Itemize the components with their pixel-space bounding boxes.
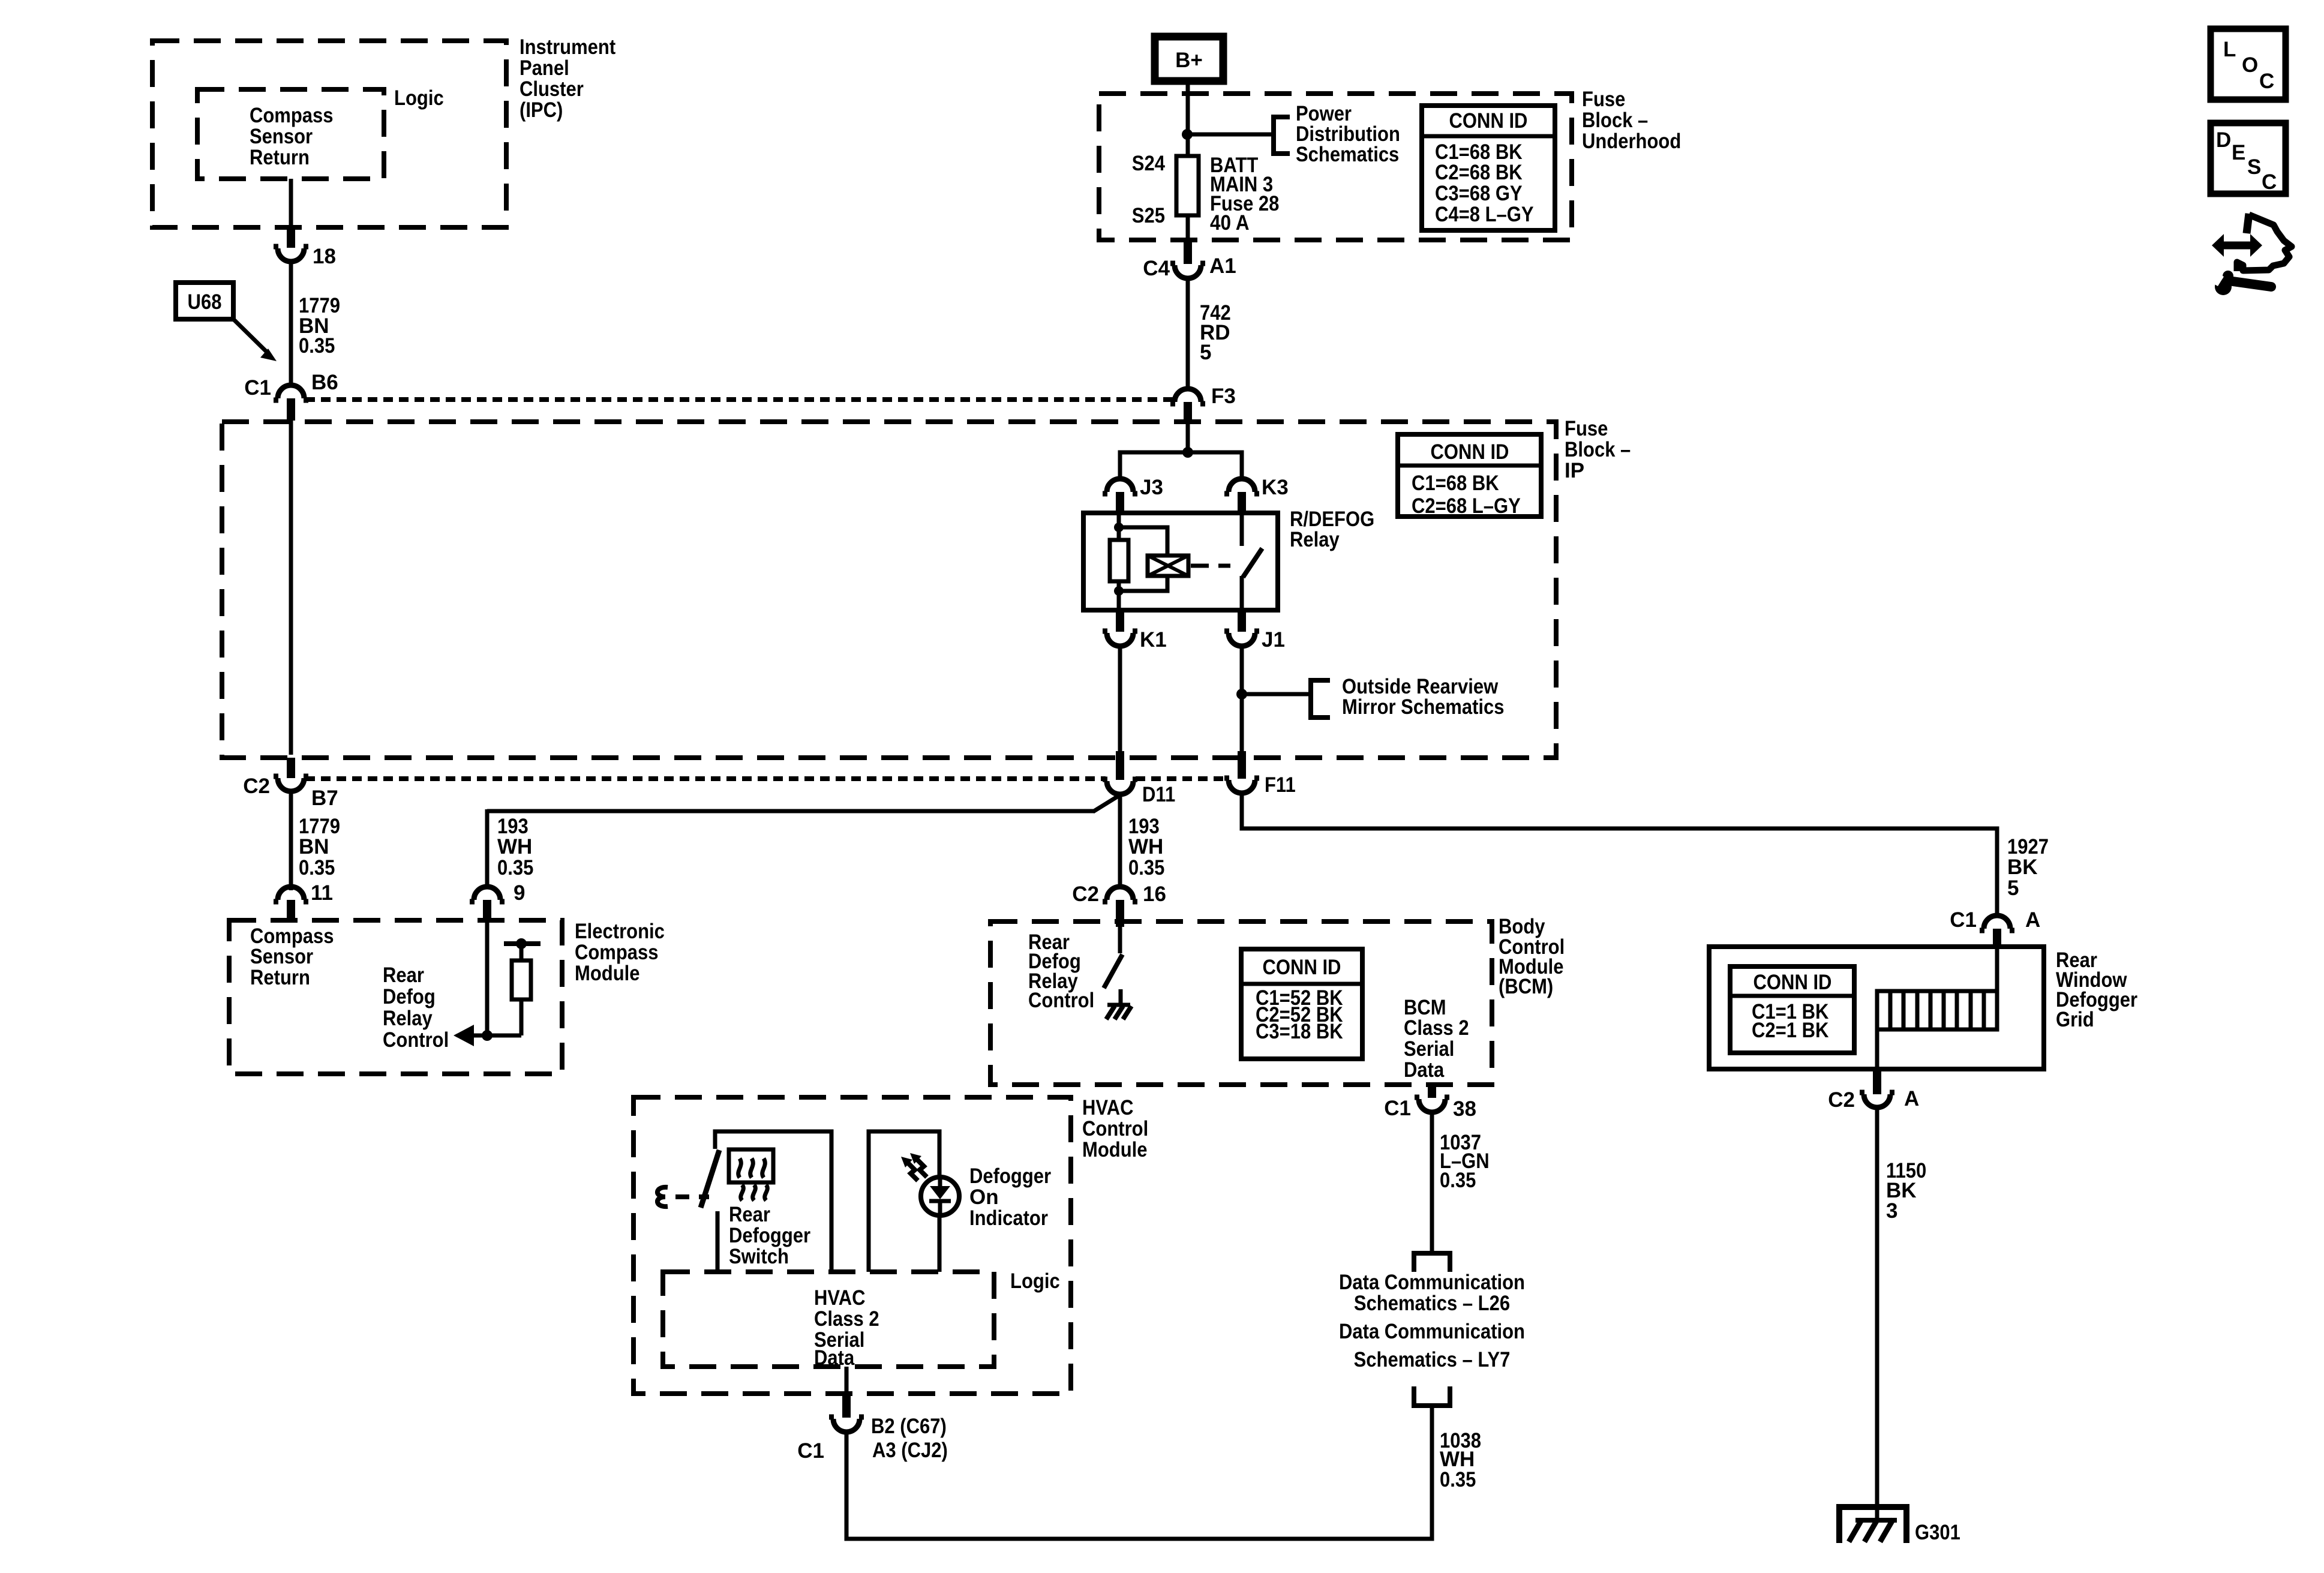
svg-text:0.35: 0.35: [497, 856, 533, 879]
svg-text:40 A: 40 A: [1210, 211, 1250, 235]
svg-text:0.35: 0.35: [1128, 856, 1164, 879]
svg-text:C1=68 BK: C1=68 BK: [1412, 472, 1499, 495]
wire from F3 to relay branch junction: [1186, 424, 1190, 452]
svg-text:S25: S25: [1132, 204, 1165, 227]
svg-text:Compass: Compass: [250, 104, 334, 127]
dotted connector line C2/B7 to D11 to F11: [305, 776, 1106, 781]
junction node in compass module: [482, 1030, 493, 1041]
svg-text:Cluster: Cluster: [520, 77, 584, 101]
svg-text:Switch: Switch: [729, 1245, 789, 1268]
BCM relay driver switch blade: [1104, 954, 1122, 988]
bracket: outside rearview mirror schematics tab: [1311, 680, 1330, 718]
svg-text:38: 38: [1453, 1097, 1476, 1121]
svg-text:C2: C2: [1072, 882, 1099, 906]
svg-text:E: E: [2232, 141, 2245, 164]
module box: Fuse Block - IP: [222, 422, 1556, 758]
svg-text:Control: Control: [1028, 989, 1094, 1012]
svg-text:C2=68 BK: C2=68 BK: [1435, 161, 1523, 184]
svg-text:Control: Control: [1082, 1117, 1148, 1140]
svg-text:C4: C4: [1143, 257, 1170, 280]
svg-text:Data: Data: [1404, 1058, 1445, 1082]
svg-text:C2=1 BK: C2=1 BK: [1752, 1019, 1828, 1042]
wire 1779 BN segment 2 (through fuse block IP): [289, 421, 293, 755]
svg-text:CONN ID: CONN ID: [1431, 440, 1509, 464]
wire 1038 WH: [846, 1406, 1432, 1539]
CONN ID table (defogger grid): [1730, 966, 1854, 1053]
svg-text:11: 11: [311, 881, 333, 905]
off-page bracket to data communication (upper): [1414, 1253, 1450, 1272]
svg-text:A3 (CJ2): A3 (CJ2): [872, 1439, 948, 1462]
svg-text:Return: Return: [250, 146, 310, 169]
svg-text:CONN ID: CONN ID: [1263, 956, 1341, 979]
svg-text:Module: Module: [1082, 1138, 1148, 1161]
relay coil feed wire: [1117, 513, 1121, 540]
svg-text:C1: C1: [1384, 1097, 1411, 1120]
icon body repair arrow-wrench: [2208, 214, 2292, 295]
svg-text:Class 2: Class 2: [814, 1307, 879, 1331]
svg-text:Schematics – L26: Schematics – L26: [1354, 1292, 1510, 1315]
svg-text:9: 9: [514, 881, 525, 905]
svg-text:(IPC): (IPC): [520, 98, 563, 122]
wire K1 to D11: [1118, 646, 1122, 751]
svg-text:C1: C1: [1950, 908, 1977, 932]
svg-text:Class 2: Class 2: [1404, 1016, 1469, 1040]
svg-text:WH: WH: [1128, 835, 1163, 858]
svg-text:HVAC: HVAC: [814, 1286, 866, 1310]
svg-text:Rear: Rear: [729, 1203, 770, 1226]
connector C1 pin A of rear window defogger grid: [1984, 915, 2010, 929]
svg-text:Serial: Serial: [1404, 1037, 1454, 1061]
fuse BATT MAIN 3 Fuse 28 40 A: [1176, 156, 1199, 215]
relay switch blade: [1243, 548, 1262, 577]
svg-text:J3: J3: [1140, 476, 1163, 499]
LED emission arrows: [901, 1153, 927, 1181]
svg-text:18: 18: [313, 245, 336, 268]
power symbol B+: [1155, 37, 1223, 81]
internal pull-up resistor of compass module: [487, 1034, 521, 1038]
svg-text:C4=8 L–GY: C4=8 L–GY: [1435, 203, 1534, 226]
svg-text:16: 16: [1143, 882, 1166, 906]
svg-text:K3: K3: [1262, 476, 1289, 499]
connector C2 pin 16 of BCM: [1107, 887, 1133, 900]
relay suppression resistor: [1110, 540, 1128, 581]
svg-text:Underhood: Underhood: [1582, 130, 1681, 153]
svg-text:Rear: Rear: [383, 963, 424, 987]
component box: Rear Window Defogger Grid: [1709, 947, 2044, 1069]
wire inside compass module from pin 9: [485, 920, 490, 1035]
svg-text:C3=18 BK: C3=18 BK: [1256, 1020, 1343, 1043]
module box: Instrument Panel Cluster (IPC): [152, 41, 506, 227]
svg-text:Sensor: Sensor: [250, 945, 313, 968]
wire 193 WH from pin 9 up to D11: [485, 809, 490, 888]
svg-text:On: On: [969, 1185, 999, 1209]
svg-text:0.35: 0.35: [1440, 1468, 1476, 1491]
arrow from U68 to wire: [233, 319, 266, 352]
svg-text:Module: Module: [575, 962, 640, 985]
svg-text:Schematics – LY7: Schematics – LY7: [1354, 1348, 1511, 1371]
svg-text:O: O: [2242, 53, 2258, 77]
connector J3 of R/DEFOG relay: [1107, 479, 1133, 492]
grid element wiring: [1995, 947, 1999, 991]
connector C1 pin B2 (C67) / A3 (CJ2) of HVAC: [842, 1394, 851, 1418]
junction node to power distribution: [1182, 129, 1193, 140]
svg-text:B+: B+: [1175, 49, 1203, 72]
wire 1779 BN segment 3: [289, 791, 293, 890]
defogger heat icon: [729, 1149, 773, 1200]
dotted connector line C1/B6 to F3: [305, 397, 1173, 402]
circuit label U68: [176, 283, 233, 319]
svg-text:C2: C2: [1828, 1088, 1855, 1112]
icon LOC: [2211, 29, 2286, 100]
wire to power distribution schematics: [1187, 133, 1274, 137]
svg-text:WH: WH: [497, 835, 532, 858]
module box: Electronic Compass Module: [229, 920, 562, 1074]
svg-text:D11: D11: [1142, 783, 1175, 806]
svg-text:Mirror Schematics: Mirror Schematics: [1342, 695, 1505, 719]
svg-text:Logic: Logic: [394, 86, 444, 110]
relay actuator dashed link: [1191, 564, 1230, 568]
icon DESC: [2211, 123, 2286, 194]
junction node coil top: [1114, 523, 1124, 532]
svg-text:Defogger: Defogger: [729, 1224, 810, 1247]
svg-text:Block –: Block –: [1565, 438, 1631, 461]
wire split to J3 and K3: [1120, 452, 1242, 479]
connector K3 of R/DEFOG relay: [1229, 479, 1255, 492]
svg-text:Compass: Compass: [575, 941, 659, 964]
svg-text:Indicator: Indicator: [969, 1206, 1048, 1230]
svg-text:B2 (C67): B2 (C67): [871, 1415, 947, 1438]
svg-text:B6: B6: [311, 371, 338, 394]
connector J1 of R/DEFOG relay: [1238, 610, 1246, 632]
svg-text:Electronic: Electronic: [575, 920, 665, 943]
wire J1 to F11: [1240, 646, 1244, 751]
connector pin 18 of IPC: [287, 227, 295, 248]
svg-text:Defog: Defog: [383, 985, 436, 1008]
svg-text:(BCM): (BCM): [1499, 975, 1553, 998]
module box: HVAC Control Module: [633, 1097, 1071, 1394]
svg-text:S24: S24: [1132, 152, 1166, 175]
connector D11 of fuse block IP: [1116, 751, 1124, 780]
arrow to logic (rear defog relay control): [454, 1025, 474, 1046]
svg-text:C: C: [2259, 70, 2274, 93]
svg-text:Fuse: Fuse: [1582, 88, 1625, 111]
svg-text:Defogger: Defogger: [969, 1164, 1051, 1188]
svg-text:Grid: Grid: [2056, 1008, 2094, 1031]
svg-text:A: A: [2025, 908, 2040, 932]
svg-text:C: C: [2262, 170, 2277, 194]
connector C1 pin 38 of BCM: [1428, 1085, 1436, 1098]
switch dashed actuator link: [675, 1194, 709, 1199]
svg-text:A: A: [1904, 1087, 1919, 1110]
svg-text:Fuse: Fuse: [1565, 417, 1608, 440]
svg-text:D: D: [2216, 128, 2231, 152]
module box: Fuse Block - Underhood: [1099, 94, 1572, 240]
svg-text:G301: G301: [1915, 1521, 1960, 1544]
svg-text:5: 5: [1200, 341, 1211, 364]
wire 742 RD 5: [1186, 278, 1190, 390]
svg-text:3: 3: [1886, 1199, 1897, 1223]
module box: Body Control Module (BCM): [990, 921, 1492, 1085]
connector C2 pin A of rear window defogger grid: [1873, 1069, 1881, 1094]
connector F11 of fuse block IP: [1238, 751, 1246, 779]
svg-text:Sensor: Sensor: [250, 125, 313, 148]
svg-text:Instrument: Instrument: [520, 35, 615, 59]
rear defogger switch lower contact: [716, 1211, 720, 1272]
svg-text:C1: C1: [244, 376, 271, 400]
svg-text:A1: A1: [1209, 254, 1236, 278]
wire from fuse to connector C4/A1: [1186, 215, 1190, 240]
wire to outside rearview mirror schematics: [1242, 692, 1311, 697]
svg-text:Block –: Block –: [1582, 109, 1648, 132]
wire from IPC logic box to pin 18: [289, 179, 293, 227]
defogger on indicator LED wiring: [869, 1131, 939, 1272]
CONN ID table (fuse block IP): [1398, 434, 1541, 518]
svg-text:0.35: 0.35: [299, 334, 335, 358]
svg-text:J1: J1: [1262, 628, 1285, 652]
svg-text:C2: C2: [243, 775, 270, 798]
svg-text:F3: F3: [1211, 385, 1236, 408]
relay coil branch wiring: [1119, 527, 1167, 591]
CONN ID table (fuse block underhood): [1422, 106, 1555, 230]
svg-text:BN: BN: [299, 835, 329, 858]
CONN ID table (BCM): [1241, 949, 1362, 1059]
wire 1037 L-GN: [1430, 1113, 1434, 1251]
svg-text:C3=68 GY: C3=68 GY: [1435, 182, 1523, 205]
svg-text:U68: U68: [188, 290, 222, 314]
connector F3 of fuse block IP: [1175, 389, 1201, 402]
connector C4 pin A1: [1184, 240, 1192, 264]
connector K1 of R/DEFOG relay: [1116, 610, 1124, 632]
rear defogger switch blade: [701, 1150, 719, 1208]
svg-text:Panel: Panel: [520, 56, 569, 80]
relay coil element: [1148, 556, 1188, 576]
off-page bracket from data communication (lower): [1414, 1386, 1450, 1406]
svg-text:0.35: 0.35: [299, 856, 335, 879]
logic box: Compass Sensor Return (IPC): [197, 89, 384, 179]
svg-text:F11: F11: [1265, 773, 1296, 797]
svg-text:L: L: [2223, 38, 2236, 61]
svg-text:C2=68 L–GY: C2=68 L–GY: [1412, 494, 1521, 518]
BCM internal ground: [1106, 989, 1131, 1019]
junction node relay feed split: [1182, 447, 1193, 458]
logic box: HVAC Class 2 Serial Data: [663, 1272, 994, 1367]
svg-text:Logic: Logic: [1010, 1269, 1060, 1293]
svg-text:HVAC: HVAC: [1082, 1096, 1134, 1119]
wire from HVAC logic to connector: [845, 1367, 849, 1394]
svg-text:Data Communication: Data Communication: [1339, 1320, 1525, 1343]
svg-text:B7: B7: [311, 786, 338, 810]
svg-text:Data: Data: [814, 1346, 855, 1370]
wire 1927 BK from F11 to rear window defogger grid: [1242, 793, 1997, 917]
connector C2 pin B7: [287, 758, 295, 778]
svg-text:C1: C1: [797, 1439, 824, 1463]
svg-text:BK: BK: [2007, 855, 2038, 879]
svg-text:Data Communication: Data Communication: [1339, 1271, 1525, 1294]
svg-text:Control: Control: [383, 1028, 449, 1052]
bracket: power distribution schematics tab: [1274, 117, 1290, 154]
svg-text:CONN ID: CONN ID: [1449, 109, 1528, 133]
defogger grid element: [1877, 991, 1997, 1029]
svg-text:Return: Return: [250, 966, 310, 989]
wire 1779 BN segment 1: [289, 262, 293, 386]
wire 193 WH from D11 down to BCM: [1118, 794, 1122, 888]
connector pin 11 of Electronic Compass Module: [278, 887, 304, 900]
junction node coil bottom: [1114, 586, 1124, 596]
junction node to outside rearview mirror: [1236, 689, 1247, 700]
svg-text:Relay: Relay: [1290, 528, 1340, 551]
relay switch contact (fixed): [1240, 515, 1244, 546]
ground G301: [1839, 1507, 1906, 1543]
manual actuator hook: [657, 1187, 668, 1206]
connector C1 pin B6: [278, 385, 304, 398]
connector pin 9 of Electronic Compass Module: [474, 887, 500, 900]
svg-text:0.35: 0.35: [1440, 1169, 1476, 1192]
wire from B+ into fuse block underhood: [1186, 81, 1190, 157]
svg-text:CONN ID: CONN ID: [1753, 971, 1832, 994]
rear defogger switch circuit rail: [715, 1131, 831, 1272]
svg-text:Schematics: Schematics: [1296, 143, 1399, 166]
LED defogger on indicator: [921, 1177, 959, 1215]
svg-text:K1: K1: [1140, 628, 1167, 652]
svg-text:S: S: [2247, 155, 2261, 179]
svg-text:Relay: Relay: [383, 1007, 433, 1030]
svg-text:IP: IP: [1565, 459, 1584, 482]
BCM internal switch wire: [1118, 927, 1122, 953]
wire 1150 BK 3: [1875, 1107, 1879, 1520]
svg-text:5: 5: [2007, 876, 2019, 900]
relay body: R/DEFOG Relay: [1083, 513, 1278, 610]
